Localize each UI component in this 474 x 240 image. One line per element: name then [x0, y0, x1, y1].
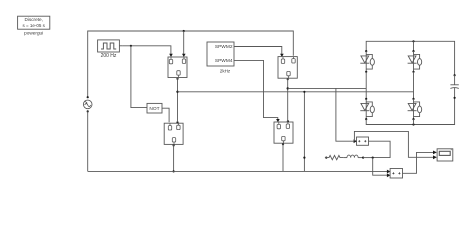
switch block S2	[278, 57, 297, 79]
node bridge top right	[412, 40, 414, 42]
arrow into scope input 1	[433, 151, 437, 155]
node on top rail at S1 terminal	[183, 30, 185, 32]
wire pulse generator output to switch S1 gate	[122, 46, 170, 56]
wire S1 bottom through rail A junction to S3 terminal	[177, 78, 179, 123]
node rail A start junction	[176, 91, 178, 93]
svg-text:s = 1e-05 s: s = 1e-05 s	[23, 23, 46, 28]
SPWM subsystem 2kHz	[207, 42, 234, 74]
node below S3	[173, 144, 175, 146]
scope block	[437, 149, 453, 161]
svg-text:powergui: powergui	[24, 31, 43, 36]
svg-text:Discrete,: Discrete,	[24, 17, 43, 22]
node below S1	[176, 78, 178, 80]
wire M1 output down to load wire	[369, 141, 391, 157]
NOT logic block	[147, 103, 162, 113]
node at S3 terminal port	[176, 121, 178, 123]
rail B phase wire to left bridge column	[288, 87, 367, 89]
wire D1 to D3 with rail B tap	[365, 72, 367, 99]
node at S4 terminal port	[287, 120, 289, 122]
current measurement block M1	[357, 137, 369, 145]
bridge bottom rail	[366, 98, 454, 125]
svg-text:NOT: NOT	[149, 106, 159, 112]
wire source minus down to bottom rail	[87, 111, 89, 171]
wire S2 bottom to S4 terminal	[287, 78, 289, 122]
voltage measurement block M2	[390, 169, 402, 179]
arrow into S2 gate	[280, 54, 284, 57]
wire top rail down to S1 terminal	[183, 31, 185, 56]
signal loop wire M1 to scope input 2	[354, 131, 433, 157]
node bridge bottom right	[412, 123, 414, 125]
wire SPWM2 to switch S2 gate	[234, 47, 282, 56]
wire rail B down to current measurement	[336, 88, 354, 141]
wire load junction down to M2 input 2	[373, 158, 388, 176]
arrow into S4 gate	[276, 119, 280, 122]
node on rail A at x 304	[303, 91, 305, 93]
switch block S1	[168, 57, 187, 78]
arrow into scope input 2	[433, 155, 437, 159]
bridge top rail	[366, 41, 454, 75]
diode device D3 lower left	[360, 98, 374, 120]
wire junction down to NOT input	[131, 46, 147, 108]
powergui block	[18, 16, 50, 35]
arrow into S1 terminal	[182, 54, 186, 57]
rail A phase wire to right bridge column	[178, 91, 414, 93]
svg-text:SPWM4: SPWM4	[215, 58, 233, 64]
wire NOT output to switch S3 gate	[162, 108, 169, 122]
arrow into M2 input 2	[387, 173, 391, 177]
switch block S4	[274, 122, 293, 143]
switch block S3	[164, 123, 183, 144]
wire D2 to D4 with rail A tap	[413, 72, 415, 99]
series RLC load branch	[325, 155, 373, 160]
diode device D4 lower right	[408, 98, 422, 120]
node rail B start junction	[287, 87, 289, 89]
wire S4 bottom to bottom rail	[282, 143, 284, 171]
pulse generator 200 Hz	[98, 40, 123, 59]
node load wire junction	[372, 157, 374, 159]
svg-text:200 Hz: 200 Hz	[101, 53, 117, 59]
wire rail A down to bottom rail	[303, 92, 305, 172]
capacitor C	[450, 74, 458, 99]
AC voltage source Vs	[83, 96, 92, 112]
node junction on pulse wire	[130, 45, 132, 47]
node below S4	[282, 143, 284, 145]
svg-text:SPWM2: SPWM2	[215, 44, 233, 50]
arrow into M2 input 1	[387, 170, 391, 174]
diode device D2 upper right	[408, 50, 422, 73]
node below S2	[287, 78, 289, 80]
wire M2 output to scope input 1	[403, 152, 434, 173]
wire D4 to bottom rail	[413, 119, 415, 124]
wire S3 bottom to bottom rail	[173, 144, 175, 171]
top rail from source to S1 and S2 terminals	[88, 31, 294, 97]
node at bottom rail S3	[173, 170, 175, 172]
node on load level wire	[303, 157, 305, 159]
arrow into S1 gate	[169, 54, 173, 57]
arrow into M1	[354, 139, 357, 143]
svg-text:2kHz: 2kHz	[220, 69, 231, 74]
bottom rail to measurement block M2	[88, 170, 388, 172]
wire top rail down to device D2	[413, 41, 415, 51]
wire SPWM4 to switch S4 gate	[234, 60, 278, 120]
diode device D1 upper left	[360, 50, 374, 73]
